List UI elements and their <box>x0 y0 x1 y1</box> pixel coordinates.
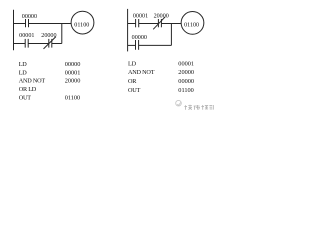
svg-text:01100: 01100 <box>178 87 194 94</box>
svg-text:01100: 01100 <box>65 95 81 102</box>
svg-text:OR LD: OR LD <box>19 86 37 93</box>
svg-text:AND NOT: AND NOT <box>19 78 46 85</box>
svg-text:01100: 01100 <box>74 22 89 28</box>
svg-text:OUT: OUT <box>128 87 141 94</box>
svg-text:20000: 20000 <box>41 33 56 39</box>
svg-text:00000: 00000 <box>65 61 81 68</box>
svg-text:LD: LD <box>128 60 137 67</box>
svg-text:00000: 00000 <box>22 14 37 20</box>
svg-text:00001: 00001 <box>178 60 194 67</box>
svg-text:OUT: OUT <box>19 95 32 102</box>
svg-text:20000: 20000 <box>65 78 81 85</box>
svg-text:00001: 00001 <box>133 14 148 20</box>
svg-text:LD: LD <box>19 61 28 68</box>
svg-text:20000: 20000 <box>154 14 169 20</box>
svg-text:LD: LD <box>19 69 28 76</box>
svg-text:01100: 01100 <box>184 23 199 29</box>
svg-text:00000: 00000 <box>178 78 194 85</box>
svg-text:AND NOT: AND NOT <box>128 69 155 76</box>
svg-text:20000: 20000 <box>178 69 194 76</box>
svg-text:OR: OR <box>128 78 137 85</box>
svg-text:00000: 00000 <box>132 35 147 41</box>
svg-text:00001: 00001 <box>19 33 34 39</box>
svg-text:00001: 00001 <box>65 69 81 76</box>
